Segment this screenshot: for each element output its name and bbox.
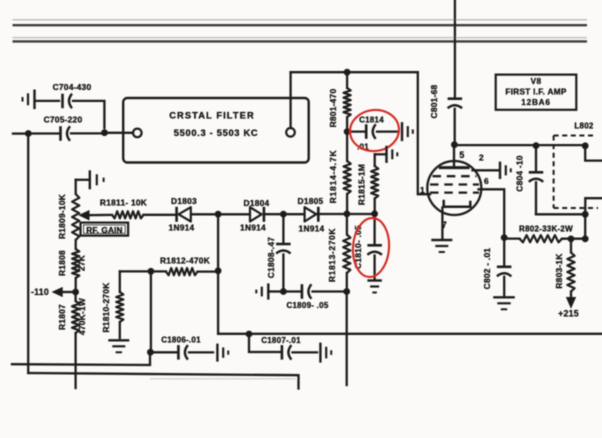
- wire filter output up: [289, 72, 291, 128]
- node rail/R801: [344, 69, 351, 76]
- svg-text:2: 2: [479, 153, 484, 163]
- node coil bottom: [582, 211, 589, 218]
- wire pin 2: [473, 169, 499, 171]
- ground C1814 (sideways right): [402, 122, 413, 141]
- wire AVC bus down: [217, 217, 219, 334]
- svg-text:5: 5: [459, 150, 464, 160]
- pin 6 label: [484, 176, 489, 186]
- capacitor C804: [515, 147, 544, 214]
- node D1804/D1805: [280, 211, 287, 218]
- pin 7 label: [442, 220, 447, 230]
- wire AVC line: [218, 333, 602, 335]
- label box V8 FIRST I.F. AMP 12BA6: [496, 75, 577, 110]
- svg-text:C704-430: C704-430: [53, 82, 92, 92]
- svg-text:D1803: D1803: [171, 196, 197, 206]
- diode D1804: [240, 198, 270, 232]
- resistor R803: [554, 241, 575, 298]
- wire grid rail: [291, 71, 418, 73]
- ground C1810: [367, 281, 382, 293]
- wire C804 to coil: [536, 213, 583, 215]
- node R1812 right: [215, 267, 222, 274]
- wire coil to B+ node: [584, 217, 586, 237]
- capacitor C705: [31, 114, 101, 141]
- resistor R801: [328, 74, 351, 129]
- node screen/C802/R802: [501, 234, 508, 241]
- node R802/R803: [568, 236, 575, 243]
- svg-text:R803-1K: R803-1K: [554, 253, 564, 288]
- svg-text:D1805: D1805: [298, 196, 324, 206]
- wire R1807 down: [74, 333, 76, 388]
- ground C1807 (sideways right): [320, 343, 331, 363]
- node C1808/C1809: [280, 288, 287, 295]
- wire R1810 top: [120, 270, 148, 272]
- svg-text:1N914: 1N914: [299, 224, 325, 234]
- svg-text:CRSTAL FILTER: CRSTAL FILTER: [169, 111, 255, 121]
- svg-text:C1806-.01: C1806-.01: [161, 335, 201, 344]
- capacitor C1809: [286, 284, 345, 310]
- svg-text:C705-220: C705-220: [44, 114, 83, 124]
- wire plate line: [456, 144, 584, 146]
- node D1803/D1804: [215, 211, 222, 218]
- node -110 junction: [72, 289, 79, 296]
- capacitor C1808: [266, 217, 291, 290]
- svg-text:L802: L802: [574, 122, 594, 131]
- svg-text:RF. GAIN: RF. GAIN: [86, 225, 122, 235]
- pin 5 label: [459, 150, 464, 160]
- wire grid down to pin 1: [418, 72, 430, 194]
- capacitor C1806: [153, 335, 213, 359]
- svg-text:R1813-270K: R1813-270K: [327, 228, 337, 282]
- wire pin 6 to screen node: [479, 189, 505, 234]
- svg-text:R801-470: R801-470: [328, 89, 338, 128]
- resistor R1815: [357, 154, 379, 211]
- diode D1803: [169, 196, 198, 232]
- coil L802 (dashed box): [554, 122, 598, 209]
- svg-text:D1804: D1804: [244, 198, 270, 208]
- wire R1812 left down: [150, 274, 152, 350]
- ground C1809 (sideways left): [256, 283, 281, 299]
- wire diode line: [89, 214, 373, 215]
- resistor R1813: [327, 216, 351, 289]
- wire bottom line A: [12, 354, 150, 365]
- svg-text:1: 1: [420, 185, 425, 195]
- svg-text:R1812-470K: R1812-470K: [160, 255, 210, 265]
- node R1812 left: [148, 268, 155, 275]
- capacitor C1814: [349, 116, 399, 152]
- ground C1806 (sideways right): [217, 344, 228, 362]
- ground R1810: [108, 340, 129, 352]
- wire bottom line B: [28, 373, 298, 389]
- ground R1809 (sideways right): [76, 170, 104, 189]
- svg-text:R802-33K-2W: R802-33K-2W: [519, 224, 573, 233]
- wire input: [13, 132, 25, 134]
- resistor R1810: [101, 271, 123, 338]
- pin filter input terminal: [133, 129, 142, 138]
- capacitor C704: [53, 82, 105, 128]
- node plate/C801/C804: [451, 141, 458, 148]
- highlight circle around C1814: [348, 108, 401, 154]
- node D1805/R1814/R1813: [344, 211, 351, 218]
- ground cathode: [431, 240, 452, 252]
- wire to filter input: [107, 132, 133, 134]
- supply arrow +215: [558, 298, 579, 319]
- node C1807 junction: [246, 331, 253, 338]
- pin 2 label: [479, 153, 484, 163]
- svg-text:V8: V8: [531, 77, 542, 86]
- potentiometer R1809: [57, 180, 89, 240]
- svg-text:C801-68: C801-68: [429, 84, 439, 118]
- svg-text:R1807: R1807: [57, 304, 67, 330]
- svg-text:C1814: C1814: [359, 116, 384, 125]
- node coil top: [582, 142, 589, 149]
- resistor R1808: [57, 240, 87, 289]
- node C804 top: [533, 142, 540, 149]
- svg-text:12BA6: 12BA6: [521, 98, 551, 107]
- svg-text:R1810-270K: R1810-270K: [101, 283, 111, 333]
- svg-text:R1811- 10K: R1811- 10K: [100, 197, 147, 207]
- node C705/C704 junction: [101, 129, 108, 136]
- svg-text:C1808-.47: C1808-.47: [266, 237, 276, 278]
- svg-text:C1807-.01: C1807-.01: [261, 336, 301, 345]
- svg-text:R1808: R1808: [57, 250, 67, 276]
- ground C704 (sideways left): [23, 90, 60, 110]
- resistor R802: [506, 224, 583, 242]
- node C1806 junction: [147, 349, 154, 356]
- wire C1809 node down: [346, 294, 348, 386]
- resistor R1814: [328, 134, 351, 212]
- svg-text:6: 6: [484, 176, 489, 186]
- pin filter output terminal: [286, 128, 295, 137]
- ground C802: [493, 297, 515, 309]
- svg-text:1N914: 1N914: [240, 223, 266, 233]
- node R801/R1814/C1814: [344, 128, 351, 135]
- svg-text:-110: -110: [31, 287, 49, 297]
- label RF GAIN: [81, 223, 129, 236]
- svg-text:5500.3 - 5503 KC: 5500.3 - 5503 KC: [174, 128, 259, 138]
- ground pin 2 (sideways right): [500, 162, 511, 179]
- resistor R1812: [153, 255, 215, 275]
- svg-text:R1814-4.7K: R1814-4.7K: [328, 150, 338, 204]
- resistor R1807: [57, 295, 87, 335]
- wire plate to node: [453, 147, 455, 166]
- svg-text:+215: +215: [558, 309, 579, 319]
- capacitor C1810: [353, 216, 382, 279]
- wire coil top terminal: [585, 147, 602, 161]
- highlight circle around C1810: [351, 217, 391, 278]
- tube V8 12BA6: [427, 161, 481, 215]
- resistor R1811: [100, 197, 147, 218]
- pin 1 label: [420, 185, 425, 195]
- capacitor C801: [429, 0, 462, 143]
- supply arrow -110: [31, 287, 73, 297]
- svg-text:R1809-10K: R1809-10K: [57, 194, 67, 239]
- capacitor C802: [482, 240, 511, 296]
- node input junction: [25, 130, 32, 137]
- svg-text:C804 -10: C804 -10: [515, 155, 525, 192]
- ground R1815 (sideways right): [375, 146, 398, 163]
- wire coil bottom terminal: [585, 198, 602, 212]
- diode D1805: [298, 196, 325, 233]
- node C1809 right: [343, 288, 350, 295]
- svg-text:1N914: 1N914: [169, 223, 195, 233]
- wire left bus down: [27, 136, 29, 373]
- node B+ coil: [582, 235, 589, 242]
- wire cathode down: [441, 208, 443, 239]
- node R1815/C1810 on grid line: [371, 210, 378, 217]
- svg-text:R1815-1M: R1815-1M: [357, 164, 367, 205]
- svg-text:C1809- .05: C1809- .05: [286, 301, 328, 310]
- crystal filter FL801: [123, 98, 309, 163]
- svg-text:C802 - .01: C802 - .01: [482, 248, 492, 290]
- capacitor C1807: [249, 336, 317, 360]
- svg-text:FIRST I.F. AMP: FIRST I.F. AMP: [505, 88, 566, 97]
